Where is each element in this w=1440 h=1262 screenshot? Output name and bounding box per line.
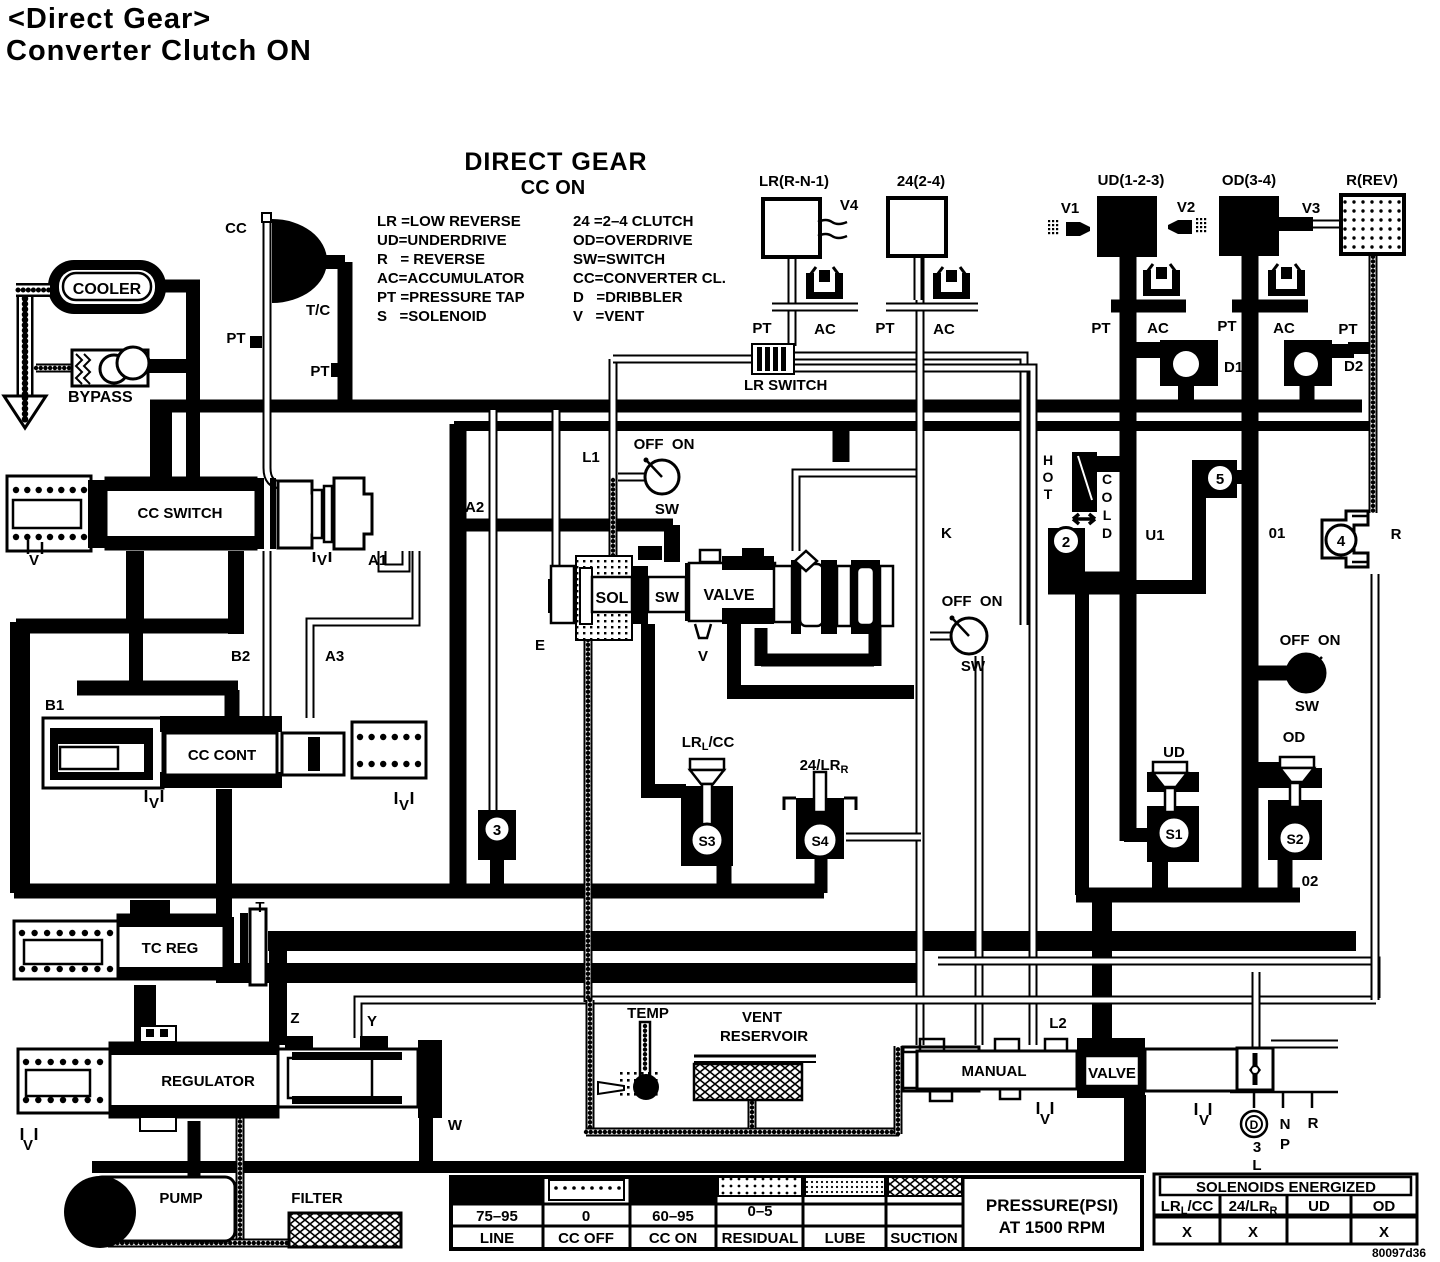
channel manual right inlet [1252, 972, 1261, 1048]
channel reservoir bottom [586, 1128, 899, 1137]
wire t/c outlet drop [338, 262, 353, 410]
svg-text:3: 3 [1253, 1139, 1261, 1156]
wire A2 to switch-valve feed [458, 519, 673, 532]
wire UD main line [1120, 257, 1137, 841]
svg-text:D: D [1250, 1118, 1259, 1132]
svg-text:PT: PT [310, 363, 329, 380]
wire main line H2 [454, 421, 1376, 431]
wire s drain drop [1092, 889, 1112, 1045]
svg-text:D1: D1 [1224, 359, 1243, 376]
svg-text:CC=CONVERTER CL.: CC=CONVERTER CL. [573, 270, 726, 287]
svg-text:LRL/CC: LRL/CC [682, 734, 735, 753]
wire valve drain drop [1124, 1095, 1146, 1172]
svg-text:LRL/CC: LRL/CC [1161, 1198, 1214, 1217]
svg-text:80097d36: 80097d36 [1372, 1246, 1426, 1260]
wire s1 s2 drain run [1076, 888, 1300, 903]
svg-text:SW: SW [1295, 698, 1320, 715]
svg-text:75–95: 75–95 [476, 1208, 518, 1225]
svg-text:U1: U1 [1145, 527, 1164, 544]
svg-text:V3: V3 [1302, 200, 1320, 217]
channel reservoir tank stem [748, 1098, 757, 1128]
svg-text:01: 01 [1269, 525, 1286, 542]
wire node 2 drop [1075, 594, 1089, 895]
manual check valve [1237, 1048, 1273, 1090]
valve MANUAL [903, 1047, 979, 1091]
svg-text:CC OFF: CC OFF [558, 1230, 614, 1247]
channel LR accumulator stem [788, 257, 797, 346]
wire U1 elbow to S1 [1124, 828, 1150, 842]
wire node 5 stub [1235, 470, 1252, 484]
wire node 5 limb [1131, 494, 1199, 587]
legend swatch SUCTION [888, 1177, 962, 1196]
svg-text:B1: B1 [45, 697, 64, 714]
vent V solenoid assembly [695, 624, 711, 638]
svg-text:V: V [1040, 1111, 1050, 1128]
wire node Z drop [269, 951, 287, 1045]
svg-text:N: N [1280, 1116, 1291, 1133]
wire s2 drain stem [1278, 860, 1293, 897]
channel LR crossbar [772, 303, 858, 312]
pressure legend table [451, 1177, 1142, 1249]
svg-text:V: V [1199, 1112, 1209, 1129]
svg-text:UD: UD [1163, 744, 1185, 761]
channel to solenoid assembly left cap [552, 410, 561, 566]
wire node A2 thick drop [450, 424, 467, 891]
wire node 2 bar [1048, 572, 1131, 595]
svg-text:S4: S4 [811, 833, 828, 849]
wire valve assembly drain b [761, 628, 874, 666]
channel LR switch left [613, 355, 752, 364]
svg-text:COOLER: COOLER [73, 281, 142, 298]
wire H2 stub to valve [833, 426, 850, 462]
svg-text:O: O [1043, 469, 1054, 485]
svg-text:X: X [1182, 1224, 1192, 1241]
svg-text:24(2-4): 24(2-4) [897, 173, 945, 190]
wire OD main line [1242, 256, 1259, 888]
svg-text:OD: OD [1373, 1198, 1396, 1215]
channel 24/K [916, 256, 925, 1045]
svg-text:PT: PT [752, 320, 771, 337]
svg-text:2: 2 [1062, 534, 1070, 551]
svg-text:S3: S3 [698, 833, 715, 849]
wire pump outlet feed [188, 1121, 201, 1177]
dribbler D2 [1284, 340, 1332, 386]
R line to main junction [1348, 342, 1370, 354]
svg-text:AC: AC [933, 321, 955, 338]
svg-text:SUCTION: SUCTION [890, 1230, 958, 1247]
dribbler D1 [1136, 342, 1164, 358]
svg-text:R: R [1308, 1115, 1319, 1132]
svg-text:C: C [1102, 471, 1112, 487]
wire line under drain [224, 963, 920, 983]
svg-text:CC ON: CC ON [521, 177, 585, 199]
channel CC upper [267, 218, 291, 485]
svg-text:B2: B2 [231, 648, 250, 665]
wire UD accumulator crossbar [1111, 300, 1186, 313]
channel R lower [1371, 574, 1380, 1000]
wire tc reg outlet drop [134, 985, 156, 1045]
svg-text:LR(R-N-1): LR(R-N-1) [759, 173, 829, 190]
svg-text:D =DRIBBLER: D =DRIBBLER [573, 289, 683, 306]
legend swatch LUBE [805, 1177, 885, 1196]
wire valve assembly drain c [869, 608, 882, 666]
wire node B1 drop [129, 630, 143, 692]
cooler [48, 260, 166, 314]
svg-text:BYPASS: BYPASS [68, 389, 133, 406]
svg-text:T: T [1044, 486, 1053, 502]
svg-text:PT: PT [1217, 318, 1236, 335]
wire t/c outlet link [324, 255, 345, 269]
svg-text:L2: L2 [1049, 1015, 1067, 1032]
svg-text:REGULATOR: REGULATOR [161, 1073, 255, 1090]
LR pressure switch [752, 344, 794, 374]
valve TC REG [14, 921, 118, 979]
svg-text:OFF ON: OFF ON [1280, 632, 1341, 649]
valve CC SWITCH [7, 476, 91, 551]
svg-text:R = REVERSE: R = REVERSE [377, 251, 485, 268]
wire cc switch drain mid [228, 551, 244, 634]
svg-text:0–5: 0–5 [747, 1203, 772, 1220]
wire solenoid S3 stem [717, 864, 732, 893]
wire booster drain drop [419, 1118, 433, 1172]
wire solenoid S4 stem [815, 857, 828, 893]
legend swatch LINE [451, 1177, 543, 1204]
channel pump suction [108, 1239, 290, 1248]
svg-text:PRESSURE(PSI): PRESSURE(PSI) [986, 1196, 1118, 1215]
svg-text:V: V [29, 552, 39, 569]
channel 3-feed [489, 410, 498, 814]
svg-text:S =SOLENOID: S =SOLENOID [377, 308, 487, 325]
node 5 marker [1192, 460, 1237, 498]
temp funnel [598, 1082, 624, 1094]
channel E stipple [584, 640, 593, 1002]
svg-text:PT: PT [226, 330, 245, 347]
svg-text:<Direct Gear>: <Direct Gear> [8, 3, 211, 35]
node 2 marker [1048, 528, 1085, 580]
channel A3 [310, 551, 416, 718]
channel R upper stipple [1369, 252, 1378, 513]
svg-text:RESERVOIR: RESERVOIR [720, 1028, 808, 1045]
bypass valve [36, 364, 76, 373]
channel 24 crossbar [886, 303, 978, 312]
svg-text:PT: PT [875, 320, 894, 337]
channel 24 accumulator stem [914, 256, 923, 300]
channel check valve outlet [1271, 1040, 1338, 1049]
svg-text:TC REG: TC REG [142, 940, 199, 957]
pump [92, 1177, 235, 1241]
channel reservoir left wall [586, 1000, 595, 1133]
svg-text:60–95: 60–95 [652, 1208, 694, 1225]
svg-text:K: K [941, 525, 952, 542]
channel LR switch right upper (HOT feed) [792, 356, 1024, 625]
wire OD accumulator crossbar [1232, 300, 1308, 313]
svg-text:R: R [1391, 526, 1402, 543]
wire switch K stub [930, 632, 950, 641]
reservoir tank [694, 1055, 816, 1058]
svg-text:AT 1500 RPM: AT 1500 RPM [999, 1218, 1105, 1237]
channel reservoir right wall [894, 1046, 903, 1134]
wire main pressure line H1 [150, 400, 1362, 413]
channel switch K output [975, 656, 984, 1045]
svg-text:A2: A2 [465, 499, 484, 516]
svg-text:SOLENOIDS ENERGIZED: SOLENOIDS ENERGIZED [1196, 1179, 1376, 1196]
svg-text:L1: L1 [582, 449, 600, 466]
wire cc switch left top feed [150, 404, 172, 477]
channel switch L1 stub [618, 473, 646, 482]
wire pump line bottom [92, 1161, 1146, 1173]
legend swatch RESIDUAL [718, 1177, 802, 1196]
channel S4 output [846, 833, 921, 842]
svg-text:O: O [1102, 489, 1113, 505]
svg-text:A1: A1 [368, 552, 387, 569]
svg-text:Z: Z [290, 1010, 299, 1027]
channel B2 lower [263, 551, 272, 718]
svg-text:D2: D2 [1344, 358, 1363, 375]
channel right return [938, 961, 1376, 998]
svg-text:SOL: SOL [596, 590, 629, 607]
svg-text:02: 02 [1302, 873, 1319, 890]
node 3 marker [478, 810, 516, 860]
wire cooler outlet link [164, 280, 200, 293]
channel LR switch right lower (L2) [792, 368, 1033, 1045]
svg-text:5: 5 [1216, 471, 1224, 488]
svg-text:V: V [149, 795, 159, 812]
legend swatch CC ON [630, 1177, 716, 1204]
svg-text:AC: AC [1273, 320, 1295, 337]
svg-text:S2: S2 [1286, 831, 1303, 847]
svg-text:E: E [535, 637, 545, 654]
svg-text:TEMP: TEMP [627, 1005, 669, 1022]
channel V3 link [1313, 220, 1342, 229]
svg-text:R(REV): R(REV) [1346, 172, 1398, 189]
svg-text:A3: A3 [325, 648, 344, 665]
wire left loop vertical [10, 622, 30, 893]
wire bypass outlet link [147, 359, 199, 373]
wire solenoid SW drain [648, 624, 686, 791]
svg-text:4: 4 [1337, 533, 1346, 550]
svg-text:AC: AC [814, 321, 836, 338]
channel Y [358, 1000, 1376, 1038]
svg-text:Y: Y [367, 1013, 377, 1030]
svg-text:PT: PT [1338, 321, 1357, 338]
legend swatch CC OFF [549, 1180, 624, 1200]
channel L1 [609, 359, 618, 558]
svg-text:24 =2–4 CLUTCH: 24 =2–4 CLUTCH [573, 213, 693, 230]
channel A1 [382, 551, 406, 568]
channel L1 stipple segment [609, 480, 618, 558]
wire switch OD link [1258, 666, 1291, 681]
svg-text:MANUAL: MANUAL [962, 1063, 1027, 1080]
svg-text:PUMP: PUMP [159, 1190, 202, 1207]
wire line Z main run [268, 931, 1356, 951]
valve 4 check [1322, 511, 1368, 567]
svg-text:V: V [399, 797, 409, 814]
cooler return stipple arrow [17, 288, 34, 396]
wire thermal valve top bar [1095, 456, 1126, 472]
channel valve pilot feed [796, 473, 918, 551]
svg-text:LR =LOW REVERSE: LR =LOW REVERSE [377, 213, 521, 230]
svg-text:Converter Clutch ON: Converter Clutch ON [6, 35, 312, 67]
svg-text:FILTER: FILTER [291, 1190, 343, 1207]
svg-text:X: X [1379, 1224, 1389, 1241]
svg-text:AC=ACCUMULATOR: AC=ACCUMULATOR [377, 270, 525, 287]
svg-text:PT: PT [1091, 320, 1110, 337]
svg-text:UD: UD [1308, 1198, 1330, 1215]
svg-text:OFF ON: OFF ON [942, 593, 1003, 610]
wire left loop top run [16, 619, 240, 634]
wire s1 drain stem [1152, 860, 1168, 895]
svg-text:OD(3-4): OD(3-4) [1222, 172, 1276, 189]
wire main drain line [14, 884, 824, 899]
svg-text:OD: OD [1283, 729, 1306, 746]
svg-text:VALVE: VALVE [704, 587, 755, 604]
svg-text:V4: V4 [840, 197, 859, 214]
svg-text:V1: V1 [1061, 200, 1079, 217]
booster section [278, 1049, 418, 1107]
svg-text:PT =PRESSURE TAP: PT =PRESSURE TAP [377, 289, 525, 306]
regulator pilot ports [140, 1026, 176, 1042]
svg-text:RESIDUAL: RESIDUAL [722, 1230, 799, 1247]
svg-text:LINE: LINE [480, 1230, 514, 1247]
svg-text:VENT: VENT [742, 1009, 782, 1026]
svg-text:LR SWITCH: LR SWITCH [744, 377, 827, 394]
pressure tap PT left [250, 336, 262, 348]
svg-text:P: P [1280, 1136, 1290, 1153]
svg-text:CC CONT: CC CONT [188, 747, 256, 764]
svg-text:VALVE: VALVE [1088, 1065, 1136, 1082]
svg-text:V: V [317, 552, 327, 569]
wire cc switch drain left [126, 551, 144, 632]
svg-text:LUBE: LUBE [825, 1230, 866, 1247]
svg-text:W: W [448, 1117, 463, 1134]
svg-text:SW: SW [961, 658, 986, 675]
svg-text:H: H [1043, 452, 1053, 468]
svg-text:L: L [1252, 1157, 1261, 1174]
wire valve assembly drain a [734, 614, 914, 692]
wire D1 stem [1178, 383, 1194, 402]
svg-text:V: V [698, 648, 708, 665]
svg-text:D: D [1102, 525, 1112, 541]
svg-text:S1: S1 [1165, 826, 1182, 842]
svg-text:X: X [1248, 1224, 1258, 1241]
wire node B1 run [77, 681, 238, 696]
solenoid assembly body [548, 579, 574, 613]
svg-text:AC: AC [1147, 320, 1169, 337]
wire cc cont drain [216, 789, 232, 983]
valve CC CONT [43, 718, 163, 788]
svg-text:T: T [255, 899, 264, 916]
svg-text:SW: SW [655, 589, 680, 606]
wire node 3 stem [490, 858, 504, 891]
wire D2 stem [1300, 383, 1315, 402]
svg-text:V2: V2 [1177, 199, 1195, 216]
svg-text:UD(1-2-3): UD(1-2-3) [1098, 172, 1165, 189]
svg-text:CC: CC [225, 220, 247, 237]
pressure tap PT right [331, 363, 347, 377]
svg-text:CC SWITCH: CC SWITCH [138, 505, 223, 522]
svg-text:UD=UNDERDRIVE: UD=UNDERDRIVE [377, 232, 507, 249]
wire cooler feed drop [186, 281, 200, 477]
svg-text:OD=OVERDRIVE: OD=OVERDRIVE [573, 232, 693, 249]
svg-text:OFF ON: OFF ON [634, 436, 695, 453]
svg-text:CC ON: CC ON [649, 1230, 697, 1247]
svg-text:V =VENT: V =VENT [573, 308, 644, 325]
channel W suction [236, 1098, 245, 1246]
solenoids energized table [1154, 1174, 1417, 1244]
svg-text:SW=SWITCH: SW=SWITCH [573, 251, 665, 268]
gear position indicators [1230, 1092, 1338, 1108]
svg-text:0: 0 [582, 1208, 590, 1225]
svg-text:3: 3 [493, 822, 501, 839]
valve REGULATOR [18, 1049, 110, 1113]
svg-text:L: L [1103, 507, 1112, 523]
torque converter T/C [272, 219, 327, 303]
svg-text:SW: SW [655, 501, 680, 518]
svg-text:V: V [23, 1137, 33, 1154]
svg-text:T/C: T/C [306, 302, 330, 319]
thermal element HOT/COLD [1072, 452, 1097, 512]
svg-text:DIRECT GEAR: DIRECT GEAR [464, 148, 647, 176]
